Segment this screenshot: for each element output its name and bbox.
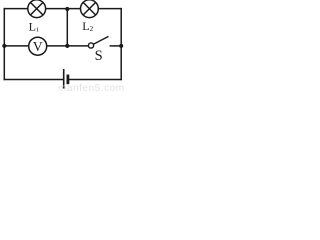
lamp L1 [28, 0, 46, 18]
voltmeter V [29, 37, 47, 55]
svg-text:V: V [33, 39, 43, 54]
svg-text:L2: L2 [82, 19, 93, 33]
svg-text:manfen5.com: manfen5.com [58, 83, 125, 92]
wire top-right segment [99, 8, 122, 10]
switch S [88, 36, 108, 48]
wire battery to bottom-right [68, 79, 122, 81]
junction node A top [65, 7, 69, 11]
wire between L1 and L2 [46, 8, 81, 10]
junction node A bottom [65, 44, 69, 48]
svg-text:L1: L1 [29, 19, 40, 33]
junction node on left wire [2, 44, 6, 48]
lamp L2 [81, 0, 99, 18]
wire top-left segment [4, 8, 28, 10]
junction node on right wire [119, 44, 123, 48]
wire left vertical [3, 8, 5, 80]
wire switch to right vertical [110, 45, 122, 47]
wire vertical connector node A [66, 9, 68, 46]
wire voltmeter to switch [47, 45, 89, 47]
wire right vertical [120, 8, 122, 80]
wire bottom-left to battery [4, 79, 64, 81]
battery cell [64, 69, 68, 89]
svg-text:S: S [95, 48, 103, 64]
wire middle-left to voltmeter [4, 45, 28, 47]
